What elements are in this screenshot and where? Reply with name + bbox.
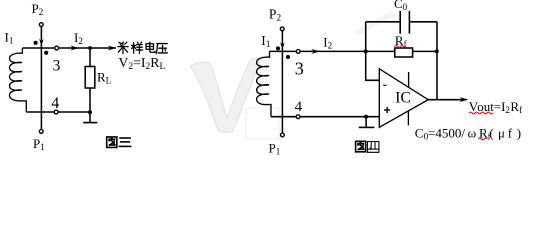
junction top of RL — [88, 46, 92, 50]
svg-text:3: 3 — [295, 59, 304, 79]
svg-text:IC: IC — [395, 90, 411, 107]
图 — [356, 141, 366, 152]
resistor Rf — [395, 48, 413, 57]
采 — [118, 42, 128, 53]
node 4 terminal — [54, 110, 58, 114]
svg-text:V2=I2RL: V2=I2RL — [118, 55, 165, 72]
spellcheck squiggle under formula Rf — [478, 138, 487, 140]
图 — [107, 137, 117, 148]
wire primary vertical P2-P1 — [40, 27, 42, 130]
terminal P2 — [280, 27, 284, 31]
junction ground node — [364, 115, 368, 119]
junction bottom of RL — [88, 110, 92, 114]
coil secondary winding — [10, 48, 27, 112]
wire Rf rail right — [413, 50, 437, 52]
wire top rail to feedback — [270, 50, 395, 52]
terminal P1 — [281, 133, 285, 137]
arrow rail end — [108, 46, 117, 51]
op-amp IC — [379, 69, 428, 128]
ground — [365, 117, 367, 128]
ground — [89, 112, 91, 123]
wire bottom rail to op-amp — [271, 116, 379, 118]
caption 图四 — [356, 141, 379, 152]
caption 图三 — [107, 137, 131, 148]
polarity dot primary — [34, 41, 38, 45]
svg-text:3: 3 — [53, 58, 61, 75]
电 — [146, 42, 155, 52]
wire bottom rail — [26, 111, 90, 113]
power pin stub top — [408, 72, 410, 87]
wire primary vertical — [281, 31, 283, 133]
resistor RL — [85, 67, 95, 89]
四 — [368, 142, 379, 153]
三 — [119, 138, 130, 146]
wire RL bottom lead — [89, 88, 91, 112]
svg-text:4: 4 — [295, 99, 303, 115]
terminal P1 — [39, 130, 43, 134]
wire feedback right vertical — [436, 22, 438, 100]
terminal P2 — [39, 23, 43, 27]
svg-text:C0: C0 — [394, 0, 408, 12]
polarity dot primary — [276, 46, 280, 50]
arrow I2 mid — [311, 49, 320, 54]
wire C0 branch left — [365, 22, 367, 52]
current arrow I1 — [280, 42, 285, 49]
wire RL top lead — [89, 48, 91, 67]
node 4 terminal — [296, 115, 300, 119]
wire inverting branch — [366, 51, 380, 80]
node 3 terminal — [296, 50, 300, 54]
coil secondary winding — [257, 51, 271, 116]
junction feedback right — [435, 49, 439, 53]
annotation sampling voltage 采样电压 — [118, 42, 168, 54]
wire C0 rail left — [366, 21, 401, 23]
spellcheck squiggle under Vout — [469, 112, 493, 114]
polarity dot secondary — [286, 55, 290, 59]
power pin stub bottom — [407, 111, 409, 125]
wire top rail — [22, 47, 116, 49]
样 — [132, 42, 143, 53]
arrow output — [460, 97, 469, 102]
watermark — [190, 11, 397, 139]
wire output — [428, 99, 466, 101]
node 3 terminal — [55, 46, 59, 50]
svg-text:4: 4 — [51, 95, 59, 112]
spellcheck squiggle under Rf — [394, 46, 406, 48]
op-amp minus sign — [383, 84, 386, 86]
junction feedback left — [364, 49, 368, 53]
arrow I2 mid — [70, 46, 79, 51]
current arrow I1 — [39, 39, 44, 46]
wire C0 rail right — [409, 21, 437, 23]
polarity dot secondary — [44, 51, 48, 55]
capacitor C0 — [399, 11, 401, 34]
压 — [156, 44, 167, 54]
op-amp plus sign — [384, 109, 390, 111]
